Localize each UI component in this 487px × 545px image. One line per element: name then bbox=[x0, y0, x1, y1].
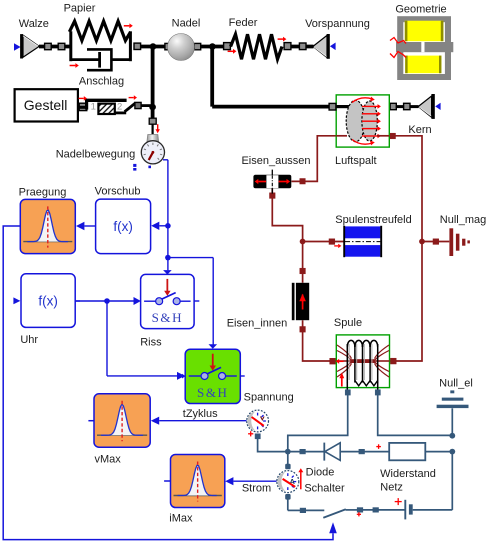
svg-text:Netz: Netz bbox=[380, 481, 403, 493]
svg-text:2: 2 bbox=[117, 101, 122, 112]
svg-text:Vorspannung: Vorspannung bbox=[305, 18, 370, 30]
svg-text:Anschlag: Anschlag bbox=[79, 76, 124, 88]
svg-text:tZyklus: tZyklus bbox=[183, 408, 218, 420]
svg-text:iMax: iMax bbox=[169, 513, 193, 525]
svg-text:f(x): f(x) bbox=[113, 219, 133, 234]
svg-text:S&H: S&H bbox=[152, 310, 184, 325]
svg-text:Eisen_innen: Eisen_innen bbox=[227, 318, 288, 330]
svg-text:Spulenstreufeld: Spulenstreufeld bbox=[335, 214, 411, 226]
svg-text:1: 1 bbox=[91, 101, 96, 112]
svg-text:Gestell: Gestell bbox=[24, 97, 68, 113]
svg-text:Riss: Riss bbox=[140, 337, 162, 349]
svg-text:Strom: Strom bbox=[242, 482, 271, 494]
svg-text:S&H: S&H bbox=[197, 385, 229, 400]
svg-text:Luftspalt: Luftspalt bbox=[335, 155, 377, 167]
svg-text:Praegung: Praegung bbox=[19, 187, 67, 199]
svg-text:Spannung: Spannung bbox=[244, 392, 294, 404]
svg-text:Uhr: Uhr bbox=[20, 334, 38, 346]
svg-text:f(x): f(x) bbox=[38, 294, 58, 309]
svg-text:Schalter: Schalter bbox=[304, 482, 345, 494]
svg-text:Vorschub: Vorschub bbox=[95, 186, 141, 198]
svg-text:Kern: Kern bbox=[408, 124, 431, 136]
svg-text:Widerstand: Widerstand bbox=[380, 468, 436, 480]
svg-text:Papier: Papier bbox=[64, 3, 96, 15]
svg-text:Feder: Feder bbox=[229, 17, 258, 29]
svg-text:Nadel: Nadel bbox=[172, 18, 201, 30]
svg-text:Walze: Walze bbox=[19, 18, 49, 30]
svg-text:vMax: vMax bbox=[94, 454, 121, 466]
svg-text:Eisen_aussen: Eisen_aussen bbox=[241, 155, 310, 167]
svg-text:Diode: Diode bbox=[306, 466, 335, 478]
svg-text:Null_el: Null_el bbox=[439, 377, 473, 389]
svg-text:Null_mag: Null_mag bbox=[440, 214, 486, 226]
svg-text:Spule: Spule bbox=[334, 317, 362, 329]
svg-text:Geometrie: Geometrie bbox=[395, 4, 446, 16]
svg-text:Nadelbewegung: Nadelbewegung bbox=[56, 149, 136, 161]
